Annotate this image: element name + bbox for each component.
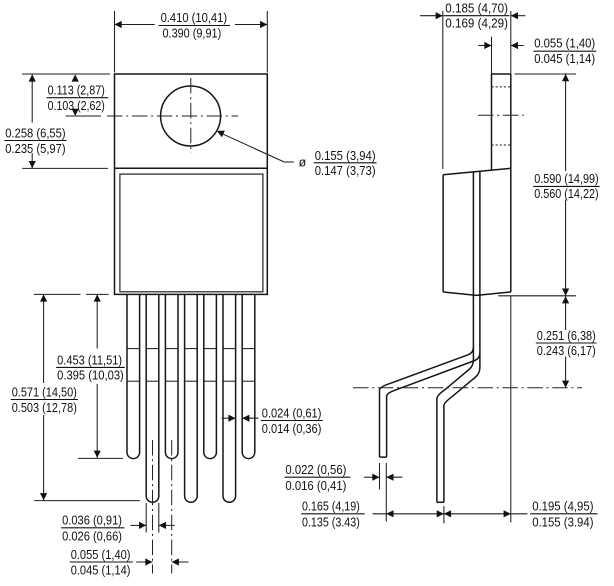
tab/body separation line [115,167,268,169]
side view lead lines inside body (both rows) [472,172,474,360]
svg-text:0.135 (3.43): 0.135 (3.43) [302,516,360,530]
svg-text:0.045 (1,14): 0.045 (1,14) [71,564,131,578]
svg-text:0.195 (4,95): 0.195 (4,95) [532,500,593,514]
extension lines at body bottom [34,293,81,295]
side view body [443,168,511,295]
tab hidden hole lines [492,86,511,88]
front row lead (bent forward) [380,347,480,457]
svg-text:0.243 (6,17): 0.243 (6,17) [537,344,596,358]
lead 5 [204,294,217,458]
mounting hole [161,86,221,146]
svg-text:0.165 (4,19): 0.165 (4,19) [302,500,360,514]
svg-text:0.155 (3,94): 0.155 (3,94) [315,149,376,163]
lead 6 [223,294,236,502]
dimension 0.258/0.235 tab height [4,74,108,168]
svg-text:ø: ø [299,155,307,169]
svg-text:0.014 (0,36): 0.014 (0,36) [262,422,322,436]
svg-text:0.395 (10,03): 0.395 (10,03) [57,369,124,383]
lead 3 centerline [171,440,173,574]
svg-text:0.390 (9,91): 0.390 (9,91) [163,27,222,41]
dimension 0.571/0.503 long lead length [11,294,140,500]
svg-text:0.024 (0,61): 0.024 (0,61) [262,406,322,420]
lead tip extension lines side view [379,463,381,490]
svg-text:0.045 (1,14): 0.045 (1,14) [534,52,595,66]
hole diameter leader and label [217,131,377,179]
body inner face rectangle [120,174,263,292]
svg-text:0.503 (12,78): 0.503 (12,78) [12,401,77,415]
lead 4 [185,294,198,502]
dimension 0.590/0.560 body height [533,74,599,296]
svg-text:0.103 (2,62): 0.103 (2,62) [48,99,105,113]
front view package outline [115,74,268,294]
dimension 0.453/0.395 short lead length [56,294,125,458]
svg-text:0.026 (0,66): 0.026 (0,66) [62,530,122,544]
dimension 0.195/0.155 text [530,500,597,530]
svg-text:0.571 (14,50): 0.571 (14,50) [12,386,77,400]
lead 2 tip edge extension lines [145,503,147,533]
lead 2 centerline [152,440,154,574]
svg-text:0.258 (6,55): 0.258 (6,55) [5,127,65,141]
dimension 0.251/0.243 lead bend height [536,296,597,388]
lead 3 [165,294,178,458]
dimension 0.165/0.135 text [301,500,365,530]
svg-text:0.169 (4,29): 0.169 (4,29) [445,16,508,30]
dimension 0.022/0.016 lead thickness [284,463,402,493]
svg-text:0.251 (6,38): 0.251 (6,38) [537,329,596,343]
svg-text:0.055 (1,40): 0.055 (1,40) [71,548,131,562]
dimension 0.185/0.169 overall depth [420,1,525,169]
svg-text:0.235 (5,97): 0.235 (5,97) [5,142,65,156]
extension line body bottom right [498,295,576,297]
dimension 0.410/0.390 overall width [115,11,268,73]
side view tab [492,74,511,170]
hole vertical centerline [190,78,192,153]
svg-text:0.022 (0,56): 0.022 (0,56) [285,463,346,477]
lead 1 [127,294,140,458]
dimension 0.113/0.103 hole center from top [22,74,110,116]
lead 2 [146,294,159,502]
dimension 0.036/0.026 lead tip width [61,514,175,544]
lead bend reference centerline [353,387,582,389]
hole horizontal centerline [107,115,238,117]
lead 7 [242,294,255,458]
dimension 0.055/0.045 tab thickness [478,37,596,75]
svg-text:0.055 (1,40): 0.055 (1,40) [534,37,595,51]
svg-text:0.560 (14,22): 0.560 (14,22) [534,187,598,201]
tab centerline [478,114,524,116]
svg-text:0.016 (0,41): 0.016 (0,41) [285,479,346,493]
dimension 0.055/0.045 lead pitch [70,548,189,578]
back row lead (straight down) [437,360,480,503]
svg-text:0.147 (3,73): 0.147 (3,73) [315,164,376,178]
dimension line 0.165 and 0.195 [373,510,528,517]
svg-text:0.036 (0,91): 0.036 (0,91) [62,514,122,528]
svg-text:0.113 (2,87): 0.113 (2,87) [48,84,105,98]
svg-text:0.155 (3.94): 0.155 (3.94) [532,516,593,530]
svg-text:0.590 (14,99): 0.590 (14,99) [534,172,598,186]
dimension 0.024/0.014 lead spacing [222,406,323,436]
svg-text:0.185 (4,70): 0.185 (4,70) [445,1,508,15]
extension line top right [515,73,577,75]
svg-text:0.410 (10,41): 0.410 (10,41) [161,11,228,25]
svg-text:0.453 (11,51): 0.453 (11,51) [57,353,122,367]
